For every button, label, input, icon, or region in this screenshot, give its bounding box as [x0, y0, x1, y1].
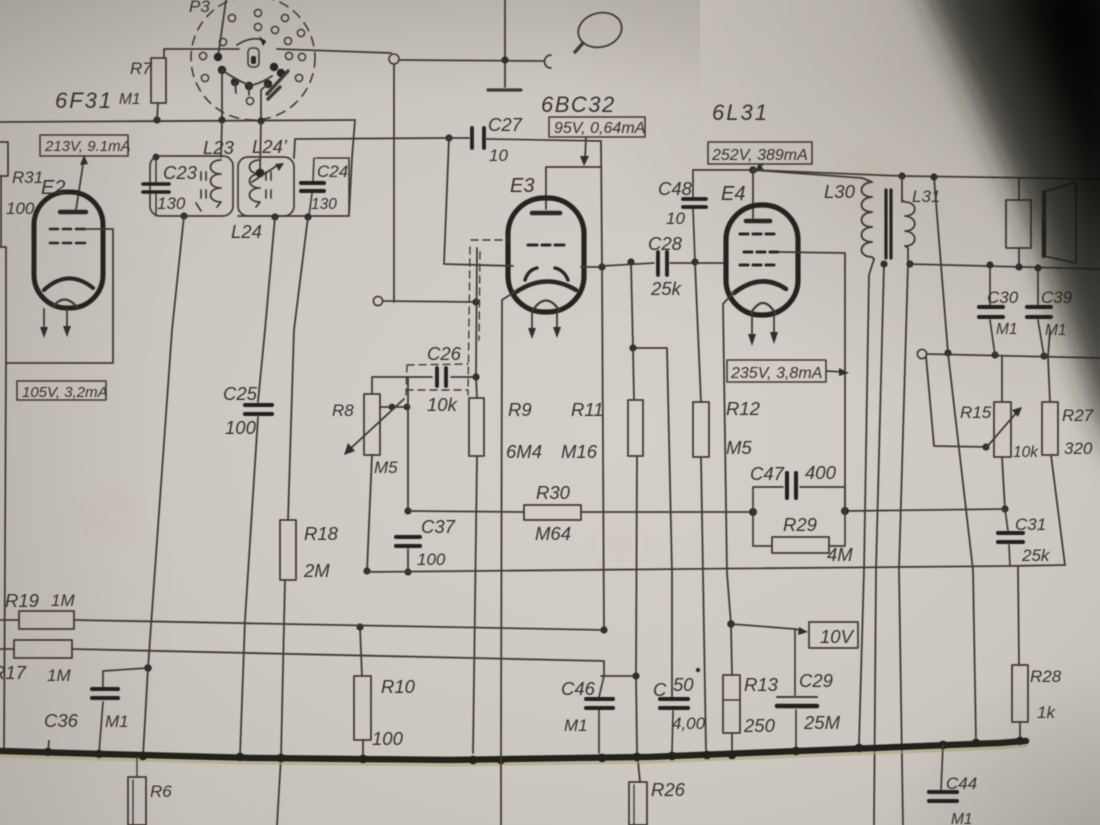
svg-text:R9: R9: [508, 399, 532, 420]
tube E3 cathode chevrons: [525, 268, 568, 280]
capacitor C31: [998, 509, 1023, 566]
wire E4 cathode down: [723, 292, 734, 624]
speaker diaphragm bar: [1042, 192, 1046, 256]
node mid rail top: [880, 260, 887, 267]
svg-text:100: 100: [6, 199, 35, 218]
resistor R11: [628, 400, 643, 456]
resistor R18: [280, 520, 296, 580]
tube E2 envelope: [34, 192, 103, 308]
tube E4 grid dashes: [740, 234, 778, 265]
box annotation 213V: [40, 135, 128, 156]
loop tool ellipse top: [575, 8, 626, 52]
wire arrow into 10V box: [795, 627, 808, 635]
svg-text:R29: R29: [783, 514, 817, 535]
node top rail junction: [930, 173, 937, 180]
wire x977 rail: [948, 353, 976, 742]
node C31 top: [1001, 505, 1008, 512]
wire rail R18 line: [277, 217, 308, 825]
capacitor C46: [586, 676, 613, 753]
shadow dark core: [995, 0, 1100, 320]
svg-text:C23: C23: [163, 162, 198, 183]
node C23 top: [153, 154, 160, 161]
wire top heater line y=49: [164, 49, 391, 58]
wire antenna stem: [504, 0, 506, 87]
resistor R30: [524, 505, 581, 520]
node C36 tap: [144, 664, 152, 672]
svg-text:R10: R10: [381, 676, 416, 697]
wire R8 tap: [380, 406, 408, 408]
wire rail C25 line: [240, 217, 275, 756]
node B+ junction: [749, 166, 757, 174]
resistor R8: [364, 394, 380, 455]
svg-text:130: 130: [157, 194, 186, 213]
svg-text:1M: 1M: [47, 666, 71, 685]
node bus junction dots: [44, 737, 1024, 765]
wire down from connector: [393, 64, 395, 302]
tube E4 envelope: [726, 205, 798, 315]
wire stub left bus: [48, 741, 49, 752]
node C39 top: [1034, 264, 1041, 271]
wire E4 plate lead: [752, 170, 754, 218]
wire R17 line: [0, 649, 604, 676]
wire top bus y=120: [0, 120, 355, 122]
capacitor C27: [449, 128, 601, 148]
wire boxes bottom rail: [238, 215, 349, 217]
wire R15 top lead: [1001, 357, 1003, 402]
open circle node grid line: [373, 296, 382, 305]
node R11 feed: [627, 258, 634, 265]
box C24: [316, 158, 349, 215]
coil box L23: [150, 156, 233, 216]
svg-text:C26: C26: [427, 343, 462, 364]
svg-text:M1: M1: [119, 91, 141, 108]
wire 252V arrow: [755, 163, 764, 172]
node vc rail junctions: [944, 349, 1047, 359]
speaker horn: [1044, 182, 1076, 263]
node speaker bottom: [1015, 263, 1022, 270]
loop C47 R29 right node: [841, 507, 849, 515]
node C48 bottom: [691, 258, 698, 265]
wire anode load line R30: [408, 511, 753, 512]
svg-text:M1: M1: [105, 712, 129, 731]
node R19 end: [600, 626, 607, 633]
svg-text:320: 320: [1064, 439, 1093, 458]
tube E4 plate bar: [746, 219, 770, 224]
svg-text:L23: L23: [203, 137, 235, 158]
coil L24 loops: [250, 160, 261, 207]
svg-text:10: 10: [489, 146, 508, 165]
wire L24 to grid wire up: [294, 138, 449, 158]
ground bar: [488, 88, 521, 91]
svg-text:R19: R19: [5, 590, 39, 611]
wire L31 top lead: [901, 176, 903, 202]
wire circle to grid rail: [383, 301, 476, 302]
svg-text:R26: R26: [651, 779, 686, 800]
svg-text:C36: C36: [44, 710, 79, 731]
socket filled pins: [214, 53, 285, 90]
transformer core bars: [886, 190, 891, 258]
wire C46 link to R11 rail: [601, 675, 636, 677]
stain orange L30: [107, 175, 874, 550]
resistor R15: [994, 402, 1011, 457]
node C30 top: [986, 261, 993, 268]
wire R13 leads: [731, 624, 732, 757]
svg-text:R8: R8: [332, 401, 354, 420]
svg-text:C31: C31: [1015, 515, 1046, 534]
capacitor C29 electrolytic: [777, 629, 817, 750]
wire P3 slant lead: [218, 0, 226, 57]
box annotation 10V: [809, 622, 858, 648]
tube E4 legs with arrows: [748, 315, 778, 346]
capacitor C44: [929, 745, 957, 801]
svg-text:250: 250: [743, 715, 776, 736]
coil L23 core ticks: [196, 172, 206, 211]
svg-text:6F31: 6F31: [55, 88, 113, 113]
resistor R9: [469, 398, 484, 456]
node grid wire: [445, 134, 452, 141]
box annotation 95V: [549, 117, 645, 137]
node C46 link: [632, 672, 639, 679]
wire C27 rail down: [601, 141, 604, 630]
tube socket P3 dashed circle: [191, 0, 315, 120]
svg-text:50: 50: [673, 674, 694, 695]
svg-text:C27: C27: [488, 114, 523, 135]
resistor R28: [1012, 665, 1028, 722]
coil L24 core ticks: [266, 172, 271, 198]
svg-text:R13: R13: [744, 674, 779, 695]
wire E2 grid out and enclosure box: [0, 229, 113, 363]
svg-text:400: 400: [805, 462, 837, 483]
coil L23 loops: [211, 160, 222, 207]
resistor R19: [19, 611, 74, 629]
svg-text:6M4: 6M4: [506, 441, 542, 462]
socket heater arcs: [222, 70, 272, 86]
tube E3 cathode arc: [516, 281, 576, 292]
svg-text:M5: M5: [726, 437, 752, 458]
svg-text:R31: R31: [12, 168, 43, 187]
wire R15 wiper feed: [926, 356, 986, 447]
wire 235V arrow: [826, 368, 849, 376]
capacitor C50: [660, 699, 688, 753]
svg-text:100: 100: [417, 550, 446, 569]
wire cathode R13 node: [727, 620, 735, 628]
wire R12 leads: [695, 263, 706, 750]
node L24 tap with arrow: [252, 163, 284, 182]
svg-text:L24: L24: [231, 221, 262, 242]
wire C28 to E4 grid: [695, 262, 728, 264]
resistor R13: [723, 675, 740, 733]
socket arc arrow: [237, 36, 266, 46]
svg-text:R17: R17: [0, 662, 27, 683]
wire R27 leads: [1048, 330, 1065, 565]
node C50 asterisk: [696, 668, 700, 672]
node vc open circle: [917, 349, 926, 358]
wire R15 arrow: [986, 407, 1022, 448]
node connector P term: [389, 54, 399, 64]
wire plate rail to C31: [845, 509, 1005, 511]
svg-text:E2: E2: [41, 177, 65, 199]
resistor R29 loop bottom: [753, 512, 845, 553]
capacitor C39: [1027, 268, 1051, 356]
wire R9 down to bus: [473, 456, 477, 753]
box annotation 252V: [708, 142, 812, 164]
coil L31: [902, 200, 915, 248]
node L31 bottom: [906, 260, 913, 267]
resistor R12: [693, 402, 709, 457]
speaker coil box: [1006, 200, 1031, 248]
svg-text:M1: M1: [564, 716, 588, 735]
wire R8 top lead: [372, 377, 408, 394]
node box bottom junctions: [180, 212, 311, 220]
wire rail L23 down to C36/bus: [143, 216, 184, 756]
node C37 top / long rail: [404, 507, 411, 575]
tube E4 cathode arc: [734, 281, 786, 293]
svg-text:C25: C25: [223, 383, 258, 404]
svg-text:M5: M5: [374, 458, 398, 477]
capacitor C28: [602, 252, 695, 275]
capacitor C26: [408, 368, 476, 386]
wire pin leads to bus: [222, 70, 268, 121]
tube E2 grid dashes: [50, 229, 85, 243]
tube E2 cathode arc: [44, 278, 93, 290]
svg-text:R6: R6: [150, 782, 172, 801]
wire mid rail from speaker line: [874, 264, 884, 825]
node R10 top: [356, 623, 363, 630]
wire top speaker rail y=177: [753, 170, 1100, 179]
svg-text:4,00: 4,00: [672, 714, 706, 733]
node bus junctions: [153, 116, 264, 124]
svg-text:R7: R7: [130, 59, 152, 78]
node junction antenna/heater: [501, 56, 508, 63]
wire R10 leads: [360, 627, 363, 756]
wire vc rail y=355: [927, 354, 1100, 358]
svg-text:C46: C46: [561, 678, 596, 699]
wire slant from top rail to vc rail: [934, 177, 948, 353]
wire long cathode rail: [365, 565, 1065, 572]
wire L30 bottom long rail: [859, 259, 874, 744]
wire connector to C-hook: [399, 60, 543, 61]
wire R15 bottom to C31: [1002, 457, 1005, 509]
tube E2 legs with arrows: [40, 309, 71, 338]
coil box L24: [238, 157, 294, 216]
capacitor C37: [396, 537, 420, 546]
loop C47 R29 left node: [749, 508, 757, 516]
wire E3 cathode rail: [501, 291, 516, 825]
wire R11 drop: [633, 348, 640, 782]
svg-text:C24: C24: [317, 162, 348, 181]
tube E3 legs with arrows: [528, 312, 561, 339]
bus main thick: [0, 741, 1026, 760]
box annotation 105V: [17, 381, 106, 400]
node grid rail: [472, 298, 479, 305]
capacitor C23: [143, 157, 169, 216]
wire R8 bottom to rail: [367, 455, 372, 571]
wire B+ top rail: [693, 170, 862, 178]
wire grid rail solid: [476, 248, 477, 398]
shield dashes C26 area: [406, 240, 509, 395]
svg-text:100: 100: [372, 728, 404, 749]
wire R8 arrow: [344, 399, 404, 455]
tube E3 plate bar: [532, 211, 560, 216]
svg-text:105V, 3,2mA: 105V, 3,2mA: [22, 384, 108, 401]
wire E3 grid feed from C27 node: [444, 138, 513, 266]
wire E4 grid out to loop: [778, 252, 845, 511]
tube E4 bottom bump: [751, 303, 775, 313]
svg-text:R30: R30: [536, 482, 571, 503]
switch bars in socket: [267, 71, 288, 99]
wire L31 bottom long rail: [899, 248, 908, 825]
wire R19 line: [0, 620, 604, 630]
capacitor C30: [979, 265, 1003, 355]
node L31 top: [898, 172, 905, 179]
socket key slot: [248, 48, 259, 67]
svg-text:100: 100: [225, 417, 257, 438]
tube E3 bottom bump: [533, 301, 559, 311]
wire R11 feed down: [631, 262, 672, 697]
tube E2 plate bar: [60, 210, 86, 214]
svg-text:C: C: [653, 679, 667, 700]
node R15 wiper: [982, 443, 989, 450]
node R11 top tee: [629, 344, 636, 351]
shadow main wedge: [917, 0, 1100, 470]
node C-hook terminal: [545, 55, 552, 68]
wire C37 rail: [407, 377, 409, 572]
wire node to C29/10V: [731, 624, 795, 629]
wire R28 leads: [1018, 566, 1020, 741]
bus fringe: [0, 746, 1026, 765]
wire R31 leads: [0, 130, 1, 247]
capacitor C36: [92, 668, 148, 753]
svg-text:2M: 2M: [303, 560, 330, 581]
box annotation 235V: [727, 360, 826, 382]
svg-text:P3: P3: [189, 0, 210, 16]
tube E3 grid dashes: [528, 244, 564, 247]
resistor R6 below bus: [128, 757, 146, 825]
wire E3 plate tee: [546, 167, 601, 209]
svg-text:R18: R18: [304, 523, 339, 544]
svg-text:10V: 10V: [820, 626, 855, 647]
svg-text:130: 130: [311, 196, 337, 213]
svg-text:L24’: L24’: [252, 136, 288, 157]
wire R7 bottom lead: [157, 103, 158, 120]
shadow top-right pre-penumbra: [560, 0, 1100, 430]
svg-text:25k: 25k: [1021, 546, 1051, 565]
wire left rail down to bus: [4, 363, 6, 751]
svg-text:M64: M64: [535, 523, 571, 544]
tube E2 bottom bump: [53, 300, 77, 308]
svg-text:4M: 4M: [827, 544, 853, 565]
svg-text:10k: 10k: [427, 394, 459, 415]
capacitor C48: [683, 170, 706, 262]
node C27 rail junction: [598, 263, 605, 270]
svg-text:213V, 9.1mA: 213V, 9.1mA: [44, 138, 131, 155]
tube E3 envelope: [508, 198, 584, 312]
resistor R10: [354, 676, 371, 740]
wire enclosure right side down from bus corner: [349, 120, 355, 215]
svg-text:1M: 1M: [51, 591, 75, 610]
wire 95V arrow to plate wire: [580, 137, 589, 166]
resistor R31: [0, 142, 8, 176]
node C26 right: [472, 373, 479, 380]
wire speaker lower rail y=266: [908, 264, 1100, 269]
wire plate lead E2 with arrow: [76, 155, 88, 210]
svg-text:10k: 10k: [1013, 444, 1039, 461]
wire E3 right to C28 rail: [581, 266, 602, 268]
svg-text:E3: E3: [510, 175, 534, 197]
node R8 tap dots: [389, 404, 411, 411]
resistor R26 below bus: [629, 782, 647, 825]
resistor R27: [1042, 402, 1058, 455]
capacitor C47 loop top: [753, 473, 845, 512]
bottom-right corner shade: [860, 650, 1100, 825]
socket ring pins: [199, 9, 305, 104]
coil L30: [862, 178, 875, 259]
svg-text:M16: M16: [561, 441, 598, 462]
svg-text:25M: 25M: [803, 712, 841, 733]
resistor R7: [151, 58, 166, 103]
svg-text:C29: C29: [799, 670, 833, 691]
node left bus dot: [44, 748, 52, 756]
node R8 bottom: [363, 567, 370, 574]
capacitor C25: [245, 405, 272, 414]
capacitor C24: [301, 158, 324, 216]
wire speaker leads: [1018, 179, 1020, 267]
resistor R17: [14, 640, 72, 658]
svg-text:C37: C37: [421, 516, 456, 537]
wire pin down to L23: [221, 121, 261, 172]
svg-text:C47: C47: [750, 463, 785, 484]
